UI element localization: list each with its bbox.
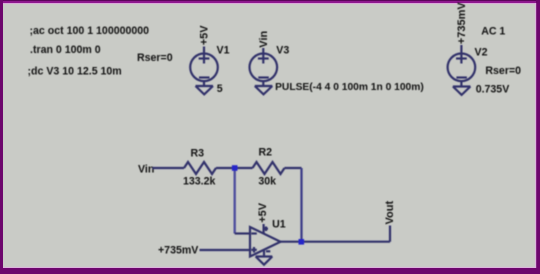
svg-text:30k: 30k bbox=[258, 175, 276, 187]
wire Vout stub bbox=[389, 226, 391, 242]
svg-text:Rser=0: Rser=0 bbox=[485, 65, 521, 77]
svg-text:V2: V2 bbox=[475, 47, 488, 59]
ground of U1 bbox=[256, 257, 273, 265]
resistor R2 bbox=[253, 162, 285, 174]
svg-text:V1: V1 bbox=[217, 45, 230, 57]
junction output node bbox=[299, 239, 305, 245]
svg-text:+735mV: +735mV bbox=[158, 245, 198, 257]
svg-text:V3: V3 bbox=[276, 45, 289, 57]
wire feedback vertical bbox=[300, 168, 302, 242]
svg-text:+735mV: +735mV bbox=[456, 2, 468, 45]
inverting input marker bbox=[251, 232, 256, 234]
ground of V1 bbox=[196, 86, 214, 94]
node Vin stub bbox=[262, 48, 264, 64]
node +735mV stub bbox=[460, 45, 462, 64]
svg-text:+5V: +5V bbox=[257, 202, 269, 223]
wire R2 right to corner bbox=[285, 167, 302, 169]
svg-text:.tran 0 100m 0: .tran 0 100m 0 bbox=[30, 44, 101, 56]
svg-text:133.2k: 133.2k bbox=[183, 176, 216, 188]
svg-text:+5V: +5V bbox=[199, 25, 211, 46]
resistor R3 bbox=[184, 162, 216, 174]
svg-text:Vin: Vin bbox=[138, 164, 154, 176]
svg-text:PULSE(-4 4 0 100m 1n 0 100m): PULSE(-4 4 0 100m 1n 0 100m) bbox=[275, 82, 424, 93]
wire output bbox=[281, 241, 391, 243]
positive supply stub bbox=[263, 224, 265, 234]
svg-text:0.735V: 0.735V bbox=[476, 84, 510, 96]
svg-text:U1: U1 bbox=[272, 218, 286, 230]
svg-text:R3: R3 bbox=[191, 147, 205, 159]
svg-text:5: 5 bbox=[217, 83, 223, 95]
svg-text:Rser=0: Rser=0 bbox=[137, 52, 173, 64]
svg-text:;ac oct 100 1 100000000: ;ac oct 100 1 100000000 bbox=[30, 25, 150, 37]
noninverting input marker bbox=[251, 249, 256, 251]
op-amp U1 bbox=[250, 224, 281, 257]
svg-text:Vin: Vin bbox=[258, 31, 270, 48]
svg-text:R2: R2 bbox=[259, 147, 273, 159]
ground of V3 bbox=[255, 86, 272, 94]
voltage source V1 bbox=[190, 47, 218, 87]
svg-text:AC 1: AC 1 bbox=[481, 25, 505, 37]
wire to inverting input bbox=[235, 232, 250, 234]
wire Vin to R3 bbox=[153, 167, 185, 169]
wire junction to R2 bbox=[235, 167, 253, 169]
voltage source V2 bbox=[448, 45, 476, 87]
junction node A bbox=[232, 165, 238, 171]
node +5V stub bbox=[203, 47, 205, 64]
wire R3 to junction bbox=[216, 167, 235, 169]
negative supply stub bbox=[263, 250, 265, 257]
wire +735mV to noninverting input bbox=[200, 249, 251, 251]
ground of V2 bbox=[453, 87, 471, 95]
svg-text:;dc V3 10 12.5 10m: ;dc V3 10 12.5 10m bbox=[28, 65, 122, 77]
svg-text:Vout: Vout bbox=[384, 201, 396, 225]
wire junction down bbox=[233, 168, 235, 234]
voltage source V3 bbox=[249, 48, 277, 86]
